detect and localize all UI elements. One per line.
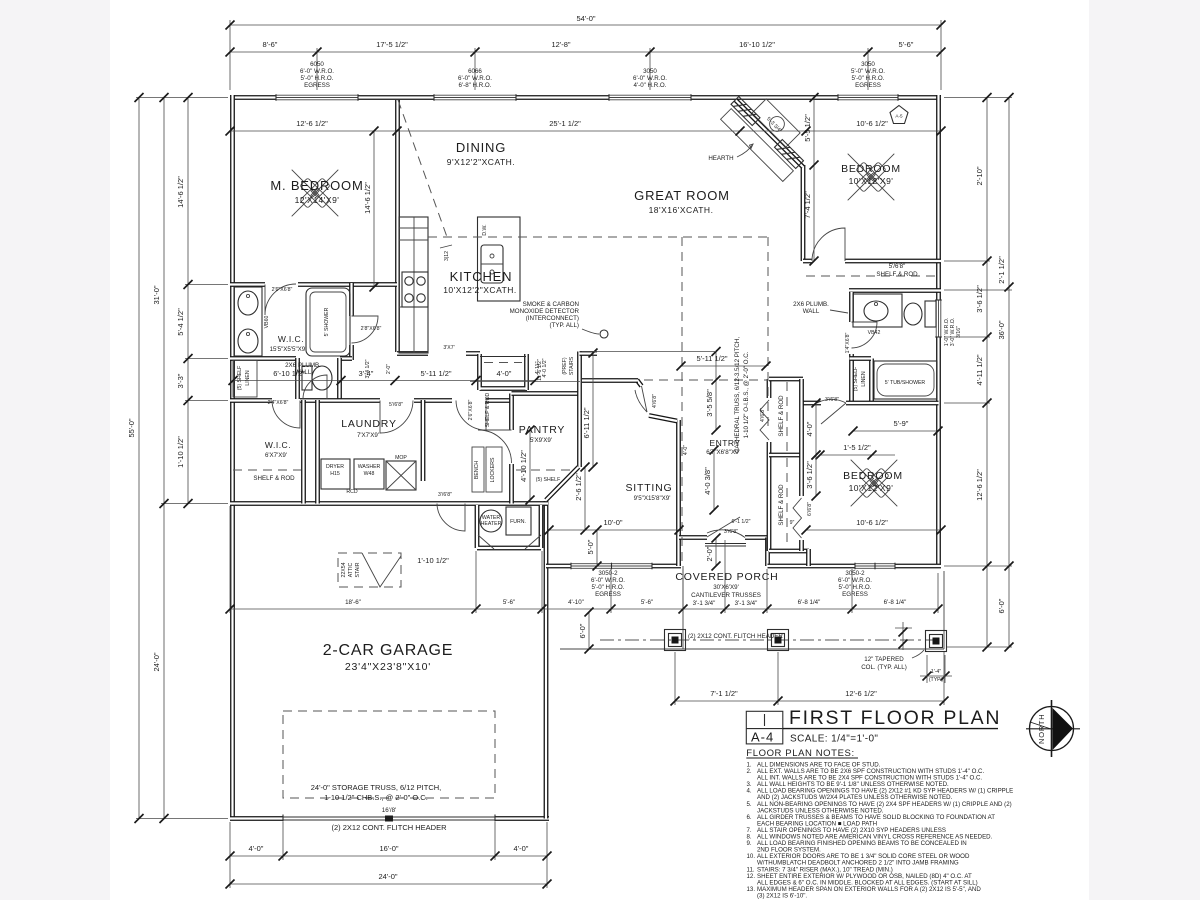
- porch column 2: [768, 630, 789, 651]
- svg-text:17'-5 1/2": 17'-5 1/2": [376, 40, 408, 49]
- dim entry top: [681, 365, 766, 367]
- mini dim col3 top: [895, 627, 912, 629]
- wall sitting east: [676, 420, 681, 566]
- window 3050-2 sitting: [571, 563, 652, 570]
- wall mudroom east / pantry west: [509, 394, 514, 504]
- svg-text:1'-10 1/2": 1'-10 1/2": [176, 436, 185, 468]
- dim vertical right inner: [986, 98, 988, 648]
- dim vertical mbed 14-6: [373, 131, 375, 287]
- svg-text:12'-6 1/2": 12'-6 1/2": [845, 689, 877, 698]
- svg-text:2.: 2.: [747, 768, 752, 775]
- dining ceiling diagonal dashed: [398, 100, 447, 237]
- svg-text:24'-0": 24'-0": [152, 652, 161, 671]
- entry step: [705, 543, 746, 545]
- wall kitchen south: [397, 351, 480, 356]
- svg-text:5.: 5.: [747, 801, 752, 808]
- wall sitting northeast diagonal jog: [637, 380, 642, 386]
- wall garage top: [230, 501, 548, 506]
- svg-text:8'-6": 8'-6": [263, 40, 278, 49]
- svg-text:6'-0" W.R.O.: 6'-0" W.R.O.: [591, 577, 625, 584]
- svg-text:24'-0": 24'-0": [378, 872, 397, 881]
- svg-text:1-10 1/2" O-I.B.S., @ 2'-0" O.: 1-10 1/2" O-I.B.S., @ 2'-0" O.C.: [743, 351, 750, 438]
- attic stair: [338, 553, 401, 587]
- svg-text:16'-0": 16'-0": [379, 844, 398, 853]
- svg-text:4'-0": 4'-0": [683, 445, 689, 455]
- svg-text:W.I.C.: W.I.C.: [265, 440, 291, 450]
- svg-text:SCALE: 1/4"=1'-0": SCALE: 1/4"=1'-0": [790, 734, 878, 745]
- dryer: [321, 459, 350, 489]
- dim vertical pantry 6-11: [592, 353, 594, 467]
- wall mudroom north: [426, 398, 511, 403]
- svg-text:LOCKERS: LOCKERS: [490, 457, 496, 482]
- porch outline: [560, 566, 944, 649]
- svg-text:SHELF & ROD: SHELF & ROD: [253, 475, 295, 482]
- pantry shelf marks: [516, 469, 575, 471]
- svg-text:STAIR: STAIR: [355, 562, 361, 577]
- wall garage right / sitting left: [544, 501, 549, 819]
- svg-text:MOP: MOP: [395, 455, 407, 461]
- svg-text:4'-0 3/8": 4'-0 3/8": [703, 467, 712, 495]
- svg-text:6'-0" W.R.O.: 6'-0" W.R.O.: [838, 577, 872, 584]
- svg-text:24'-0" STORAGE TRUSS, 6/12 PIT: 24'-0" STORAGE TRUSS, 6/12 PITCH,: [311, 783, 442, 792]
- svg-text:4'-10": 4'-10": [568, 599, 584, 606]
- svg-text:16'/8': 16'/8': [382, 807, 396, 814]
- extension lines right: [944, 98, 1012, 648]
- dim bedroom3 10-6: [806, 529, 941, 531]
- svg-text:EGRESS: EGRESS: [595, 591, 621, 598]
- wall linen west: [849, 354, 854, 403]
- linen closet master: [233, 360, 257, 397]
- wall stair head: [580, 351, 598, 356]
- svg-text:HEATER: HEATER: [481, 521, 502, 527]
- stair closet interior: [480, 356, 526, 358]
- svg-text:ATTIC: ATTIC: [348, 562, 354, 577]
- wall master bath / wic divider: [349, 283, 354, 360]
- door bedroom3: [817, 399, 846, 424]
- water heater: [480, 510, 502, 532]
- wall pantry southeast diagonal: [546, 467, 579, 500]
- svg-text:RCD: RCD: [346, 489, 357, 495]
- svg-text:A-4: A-4: [751, 730, 774, 745]
- svg-text:DRYER: DRYER: [326, 464, 344, 470]
- svg-text:SHELF & ROD: SHELF & ROD: [778, 395, 785, 437]
- wall wic2 east: [301, 400, 306, 504]
- door sitting 4/6-8 leaf: [642, 386, 648, 412]
- wall exterior left: [230, 95, 235, 821]
- door pantry: [478, 430, 512, 463]
- door front entry: [707, 517, 745, 538]
- svg-text:9.: 9.: [747, 840, 752, 847]
- svg-text:WASHER: WASHER: [358, 464, 381, 470]
- dim hall mid: [233, 380, 535, 382]
- closet rods hall: [786, 382, 788, 452]
- svg-text:4'-0": 4'-0": [805, 421, 814, 436]
- svg-text:1'4"X6'8": 1'4"X6'8": [845, 333, 851, 354]
- dim vertical entry 2-0: [715, 538, 717, 566]
- door bedroom1 closet: [812, 228, 845, 261]
- svg-text:2'6"X6'8": 2'6"X6'8": [272, 287, 293, 293]
- svg-text:NORTH: NORTH: [1037, 713, 1046, 744]
- door laundry: [380, 401, 413, 434]
- svg-text:VB60: VB60: [264, 316, 270, 329]
- svg-text:9'X12'2"XCATH.: 9'X12'2"XCATH.: [447, 157, 515, 167]
- door master bedroom to wic: [265, 284, 296, 315]
- toilet bath2: [925, 301, 936, 327]
- dim vertical bedroom1 left: [813, 98, 815, 262]
- svg-text:12'-6 1/2": 12'-6 1/2": [975, 469, 984, 501]
- svg-text:(TYP.): (TYP.): [929, 677, 944, 683]
- window 3050 bedroom1: [838, 94, 898, 101]
- kitchen counter west: [399, 217, 428, 353]
- dim vertical hall 4-0: [815, 403, 817, 455]
- dim vertical entry 4-0: [713, 450, 715, 510]
- ceiling fan bedroom1: [871, 177, 894, 200]
- svg-text:5'-0": 5'-0": [586, 539, 595, 554]
- right gray margin: [1089, 0, 1200, 900]
- wall porch back / bedroom3 south: [768, 564, 942, 569]
- svg-text:SHELF & ROD: SHELF & ROD: [876, 271, 918, 278]
- svg-text:WALL: WALL: [803, 308, 820, 315]
- section marker A-5: [890, 106, 908, 124]
- svg-text:3'-1 3/4": 3'-1 3/4": [693, 600, 716, 607]
- svg-text:6'-0": 6'-0": [997, 598, 1006, 613]
- svg-text:4.: 4.: [747, 788, 752, 795]
- door mudroom to garage: [437, 504, 465, 532]
- dim sitting 10-0: [549, 529, 679, 531]
- svg-text:18'X16'XCATH.: 18'X16'XCATH.: [649, 205, 714, 215]
- title block box: [746, 711, 783, 744]
- dim vertical hall 3-6: [815, 455, 817, 496]
- porch column 3: [926, 631, 947, 652]
- dim vertical 31/24: [163, 98, 165, 819]
- svg-text:VB42: VB42: [868, 330, 881, 336]
- svg-text:55'-0": 55'-0": [127, 418, 136, 437]
- porch column 1: [665, 630, 686, 651]
- svg-text:(INTERCONNECT): (INTERCONNECT): [526, 315, 579, 322]
- svg-text:22X54: 22X54: [341, 562, 347, 577]
- cathedral ceiling dashed lines: [428, 236, 768, 238]
- extension lines left: [136, 98, 228, 819]
- window 3050-2 bedroom3: [855, 563, 895, 570]
- dim vertical pantry 4-10: [529, 430, 531, 500]
- fireplace body rotated: [752, 99, 800, 147]
- svg-text:2'-6 1/2": 2'-6 1/2": [574, 473, 583, 501]
- svg-text:MONOXIDE DETECTOR: MONOXIDE DETECTOR: [510, 308, 580, 315]
- svg-text:6'-1 1/2": 6'-1 1/2": [732, 519, 751, 525]
- svg-text:SITTING: SITTING: [625, 482, 672, 494]
- svg-text:12'X14'X9': 12'X14'X9': [295, 195, 340, 205]
- svg-text:SHELF & ROD: SHELF & ROD: [778, 484, 785, 526]
- wall laundry east: [421, 400, 426, 481]
- svg-text:2X6 PLUMB.: 2X6 PLUMB.: [793, 301, 829, 308]
- dim 54-0 top: [230, 24, 941, 26]
- wall exterior right: [936, 95, 941, 568]
- svg-text:EGRESS: EGRESS: [842, 591, 868, 598]
- svg-text:FURN.: FURN.: [510, 519, 526, 525]
- bench: [472, 447, 484, 492]
- svg-text:3050-2: 3050-2: [845, 570, 865, 577]
- svg-text:6'-11 1/2": 6'-11 1/2": [582, 407, 591, 438]
- door bath2: [852, 322, 878, 348]
- door mudroom north: [456, 401, 486, 431]
- svg-text:FIRST FLOOR PLAN: FIRST FLOOR PLAN: [789, 707, 1001, 729]
- vanity VB60 master bath: [234, 287, 262, 356]
- svg-text:5'-0" H.R.O.: 5'-0" H.R.O.: [592, 584, 625, 591]
- svg-text:M. BEDROOM: M. BEDROOM: [270, 178, 363, 193]
- dim vertical sitting 5-0: [596, 530, 598, 566]
- svg-text:FLOOR PLAN NOTES:: FLOOR PLAN NOTES:: [746, 748, 854, 759]
- range: [402, 272, 428, 307]
- window 3050 great room: [609, 94, 691, 101]
- door closet1 bifold: [760, 400, 769, 440]
- svg-text:SMOKE & CARBON: SMOKE & CARBON: [523, 301, 579, 308]
- svg-text:4'-0": 4'-0": [249, 844, 264, 853]
- svg-text:HEARTH: HEARTH: [708, 155, 733, 162]
- dim vertical right outer: [1008, 98, 1010, 648]
- dim garage total: [230, 883, 547, 885]
- svg-text:1'-10 1/2": 1'-10 1/2": [417, 556, 449, 565]
- svg-text:(5) SHELF: (5) SHELF: [237, 366, 243, 391]
- wall hall closets west: [767, 379, 772, 551]
- svg-text:12'-6 1/2": 12'-6 1/2": [296, 119, 328, 128]
- svg-text:6'-8 1/4": 6'-8 1/4": [884, 599, 907, 606]
- svg-text:12" TAPERED: 12" TAPERED: [864, 656, 904, 663]
- svg-text:5' SHOWER: 5' SHOWER: [324, 307, 330, 336]
- svg-text:3050-2: 3050-2: [598, 570, 618, 577]
- svg-text:1'-5 1/2": 1'-5 1/2": [843, 443, 871, 452]
- window 6066 dining: [434, 94, 516, 101]
- wall bedroom1 west: [801, 165, 806, 261]
- dim garage door: [230, 855, 547, 857]
- svg-text:14'-6 1/2": 14'-6 1/2": [363, 182, 372, 214]
- svg-text:3'-3": 3'-3": [176, 373, 185, 388]
- svg-text:W.I.C.: W.I.C.: [278, 334, 304, 344]
- wall bedroom3 west: [802, 379, 809, 566]
- wall bedroom1 closet bottom: [849, 288, 941, 293]
- svg-text:4'/6'8": 4'/6'8": [652, 394, 658, 408]
- svg-text:2'-10": 2'-10": [975, 166, 984, 185]
- svg-text:6.: 6.: [747, 814, 752, 821]
- dim line interior upper: [230, 130, 941, 132]
- wall linen east: [869, 359, 874, 404]
- svg-text:3'-6 1/2": 3'-6 1/2": [975, 285, 984, 313]
- svg-text:3'-1 3/4": 3'-1 3/4": [735, 600, 758, 607]
- dim vertical sitting 2-6: [584, 467, 586, 530]
- svg-text:36'-0": 36'-0": [997, 320, 1006, 339]
- wall sitting south: [546, 564, 681, 569]
- svg-text:6'/6'8": 6'/6'8": [807, 502, 813, 516]
- svg-text:LAUNDRY: LAUNDRY: [341, 418, 397, 430]
- svg-text:1'-4": 1'-4": [931, 669, 941, 675]
- garage door opening 16/8: [283, 815, 495, 823]
- svg-text:10'-6 1/2": 10'-6 1/2": [856, 119, 888, 128]
- svg-text:7'X7'X9': 7'X7'X9': [357, 432, 379, 439]
- wall sitting north: [582, 378, 638, 383]
- kitchen island: [478, 217, 521, 301]
- svg-text:DINING: DINING: [456, 140, 506, 155]
- svg-text:1-10 1/2" CHB.S., @ 2'-0" O.C.: 1-10 1/2" CHB.S., @ 2'-0" O.C.: [324, 793, 428, 802]
- svg-text:10'X12'X9': 10'X12'X9': [849, 483, 894, 493]
- svg-text:14'-6 1/2": 14'-6 1/2": [176, 176, 185, 208]
- fireplace hatched bar lower: [775, 140, 804, 169]
- svg-text:3|12: 3|12: [444, 251, 450, 261]
- svg-text:54'-0": 54'-0": [576, 14, 595, 23]
- dim porch bottom: [675, 700, 944, 702]
- wall hall closets top: [769, 377, 803, 382]
- svg-text:18'-6": 18'-6": [345, 599, 361, 606]
- extension lines porch dim: [675, 652, 944, 705]
- wall hall closets bottom: [769, 549, 809, 554]
- svg-text:BEDROOM: BEDROOM: [843, 470, 903, 482]
- svg-text:5'-5 1/2": 5'-5 1/2": [803, 114, 812, 142]
- svg-text:(2) 2X12 CONT. FLITCH HEADER: (2) 2X12 CONT. FLITCH HEADER: [688, 633, 783, 640]
- svg-text:13.: 13.: [747, 886, 756, 893]
- svg-text:23'4"X23'8"X10': 23'4"X23'8"X10': [345, 661, 431, 673]
- mech braces: [478, 535, 541, 549]
- svg-text:3'X7': 3'X7': [443, 345, 454, 351]
- svg-text:STAIRS: STAIRS: [569, 356, 575, 375]
- svg-text:LINEN: LINEN: [861, 371, 867, 387]
- svg-text:GREAT ROOM: GREAT ROOM: [634, 188, 730, 203]
- washer: [354, 459, 384, 489]
- svg-text:3'-4": 3'-4": [359, 369, 374, 378]
- svg-text:3'/6'8": 3'/6'8": [724, 529, 738, 535]
- svg-text:4'-10 1/2": 4'-10 1/2": [519, 450, 528, 482]
- wall stair closet: [480, 354, 528, 390]
- door wic2: [272, 401, 300, 429]
- wall garage bottom: [230, 816, 549, 821]
- svg-text:10'-0": 10'-0": [603, 518, 622, 527]
- vanity VB42 bath2: [853, 294, 902, 327]
- fireplace hearth pad: [721, 109, 794, 182]
- fridge marks: [399, 227, 428, 229]
- wall master bedroom south: [230, 282, 397, 287]
- svg-text:6'-8 1/4": 6'-8 1/4": [798, 599, 821, 606]
- wall linen top: [850, 356, 872, 361]
- svg-text:4'/6'8": 4'/6'8": [760, 408, 766, 422]
- closet rod bedroom1: [806, 275, 938, 277]
- svg-text:5'-4 1/2": 5'-4 1/2": [176, 308, 185, 336]
- dim vertical left inner: [187, 98, 189, 504]
- svg-text:10.: 10.: [747, 853, 756, 860]
- svg-text:3'/6'8": 3'/6'8": [825, 397, 839, 403]
- svg-text:5'/6'8": 5'/6'8": [389, 402, 403, 408]
- left gray margin: [0, 0, 110, 900]
- wall fireplace diagonal: [736, 100, 804, 167]
- svg-text:5'-6": 5'-6": [899, 40, 914, 49]
- svg-text:3/16": 3/16": [956, 326, 962, 338]
- wall bath2 south / bedroom3 north: [803, 401, 939, 406]
- wall hall closets divider: [769, 453, 803, 458]
- svg-text:7'-4 1/2": 7'-4 1/2": [803, 191, 812, 219]
- wall entry alcove south: [679, 535, 768, 540]
- svg-text:9'5"X15'8"X9': 9'5"X15'8"X9': [634, 495, 671, 502]
- wall hall south / wic2 top: [230, 398, 426, 403]
- dim vertical entry 3-5: [715, 352, 717, 431]
- door water closet: [303, 375, 327, 399]
- svg-text:3'-5 5/8": 3'-5 5/8": [705, 389, 714, 417]
- dim bedroom3 1-5: [820, 454, 895, 456]
- extension lines top: [230, 20, 941, 90]
- svg-text:5'-6": 5'-6": [641, 599, 653, 606]
- wall pantry top: [512, 391, 579, 396]
- svg-text:2'-0": 2'-0": [705, 546, 714, 561]
- svg-text:(PREF): (PREF): [562, 357, 568, 375]
- svg-text:10'X12'X9': 10'X12'X9': [849, 176, 894, 186]
- svg-text:H15: H15: [330, 471, 340, 477]
- svg-text:KITCHEN: KITCHEN: [450, 269, 513, 284]
- svg-text:A-5: A-5: [895, 114, 903, 119]
- svg-text:10'X12'2"XCATH.: 10'X12'2"XCATH.: [443, 285, 517, 295]
- svg-text:5'/6'8": 5'/6'8": [889, 263, 906, 270]
- svg-text:(5) SHELF: (5) SHELF: [536, 477, 561, 483]
- svg-text:16'-10 1/2": 16'-10 1/2": [739, 40, 775, 49]
- svg-text:LINEN: LINEN: [245, 370, 251, 386]
- svg-text:6'X7'X9': 6'X7'X9': [265, 452, 287, 459]
- svg-text:SHELF & ROD: SHELF & ROD: [485, 392, 491, 427]
- north arrow: [1026, 700, 1080, 757]
- window bath2 right wall: [935, 300, 942, 337]
- storage truss area: [283, 711, 495, 798]
- dim long mid: [230, 608, 938, 610]
- svg-text:4'-0": 4'-0": [514, 844, 529, 853]
- wall master bedroom east (dining divider): [395, 100, 400, 352]
- svg-text:(TYP. ALL): (TYP. ALL): [550, 322, 579, 329]
- wall exterior top: [230, 95, 941, 100]
- wall wic south: [230, 356, 352, 361]
- svg-text:2'8"X6'8": 2'8"X6'8": [361, 326, 382, 332]
- svg-text:BEDROOM: BEDROOM: [841, 163, 901, 175]
- svg-text:D.W.: D.W.: [482, 224, 488, 235]
- kitchen sink: [481, 245, 503, 283]
- extension lines mid dim: [230, 506, 938, 613]
- svg-text:BENCH: BENCH: [474, 461, 480, 479]
- dim bedroom3 5-9: [853, 430, 938, 432]
- svg-text:2'-0": 2'-0": [386, 364, 392, 374]
- svg-text:30'X6'X9': 30'X6'X9': [713, 584, 739, 591]
- svg-text:COL. (TYP. ALL): COL. (TYP. ALL): [861, 664, 907, 671]
- svg-text:COVERED PORCH: COVERED PORCH: [675, 571, 778, 583]
- svg-text:5'-9": 5'-9": [894, 419, 909, 428]
- extension lines bottom garage: [230, 822, 547, 888]
- toilet water closet: [302, 366, 312, 390]
- svg-text:4'-0": 4'-0": [497, 369, 512, 378]
- tub shower: [874, 361, 937, 399]
- wall entry east: [765, 538, 770, 567]
- svg-text:3'-6 1/2": 3'-6 1/2": [805, 461, 814, 489]
- svg-text:5'X9'X9': 5'X9'X9': [530, 437, 552, 444]
- svg-text:5' TUB/SHOWER: 5' TUB/SHOWER: [885, 380, 926, 386]
- svg-text:2'4"X6'8": 2'4"X6'8": [268, 400, 289, 406]
- svg-text:CATHEDRAL TRUSS, 6/12-3.5/12 P: CATHEDRAL TRUSS, 6/12-3.5/12 PITCH,: [734, 337, 741, 453]
- svg-text:7'-1 1/2": 7'-1 1/2": [710, 689, 738, 698]
- svg-text:6'-0": 6'-0": [578, 623, 587, 638]
- door closet2 bifold: [793, 498, 802, 538]
- svg-text:5'-11 1/2": 5'-11 1/2": [420, 369, 451, 378]
- svg-text:5'-6": 5'-6": [503, 599, 515, 606]
- lockers: [486, 447, 502, 492]
- svg-text:CANTILEVER TRUSSES: CANTILEVER TRUSSES: [691, 592, 761, 599]
- fireplace hatched bar upper: [731, 97, 760, 126]
- col 1-4 dim: [926, 655, 928, 683]
- mop sink: [386, 461, 416, 490]
- closet rod wic2: [233, 469, 301, 471]
- svg-text:10'-6 1/2": 10'-6 1/2": [856, 518, 888, 527]
- furnace: [506, 507, 531, 535]
- svg-text:2X6 PLUMB.: 2X6 PLUMB.: [285, 362, 321, 369]
- wall pantry east: [577, 352, 582, 468]
- svg-text:31'-0": 31'-0": [152, 285, 161, 304]
